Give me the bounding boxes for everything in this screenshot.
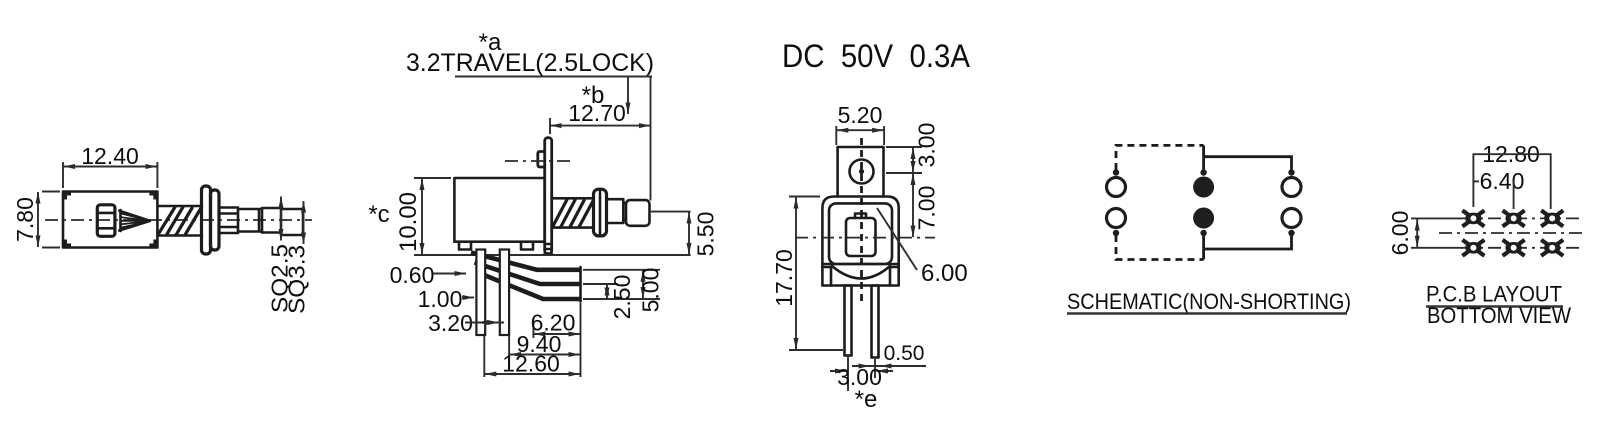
button — [626, 200, 650, 226]
pole circle top center — [1193, 177, 1214, 198]
terminal end closure — [579, 267, 582, 302]
body outline — [822, 197, 898, 286]
mid centerline — [1439, 232, 1585, 234]
foot notch left — [822, 267, 831, 286]
travel dim line — [455, 76, 652, 78]
svg-text:6.00: 6.00 — [1387, 211, 1413, 256]
terminal circle top right — [1282, 178, 1301, 197]
dim 6.00 — [1387, 211, 1462, 256]
svg-text:12.70: 12.70 — [568, 100, 626, 126]
pcb title underline — [1426, 305, 1563, 307]
cone hatch — [119, 213, 150, 228]
spring bottom edge — [552, 226, 593, 229]
body foot right — [521, 242, 533, 250]
dim SQ2.5 — [267, 197, 293, 314]
svg-text:1.00: 1.00 — [418, 286, 463, 312]
inner frame — [829, 203, 892, 264]
dim 3.00 top — [886, 123, 940, 173]
shared bottom extension line — [414, 254, 691, 256]
tip cap — [281, 209, 303, 235]
dim 3.20 — [428, 310, 504, 336]
inner window — [97, 205, 115, 237]
pad r2c2 — [1503, 240, 1525, 256]
body corner mark BL — [63, 240, 71, 248]
terminal strip 1 — [471, 253, 581, 270]
plate tab bump — [538, 152, 545, 168]
dim 0.60 — [390, 262, 466, 288]
svg-text:BOTTOM VIEW: BOTTOM VIEW — [1427, 303, 1572, 328]
dim 7.00 — [913, 174, 940, 238]
svg-text:5.50: 5.50 — [693, 212, 719, 257]
shaft section 2 — [262, 208, 281, 233]
button neck — [623, 203, 626, 220]
pad r1c2 — [1503, 210, 1525, 226]
dim 5.00 — [638, 268, 664, 313]
flange 2 — [211, 190, 220, 250]
hole center dot — [859, 169, 864, 174]
body outline — [454, 178, 544, 242]
pad r2c3 — [1541, 240, 1563, 256]
spring top edge — [158, 205, 202, 208]
body corner mark TL — [63, 192, 71, 200]
junction dots top — [1113, 169, 1295, 236]
dim 3.00 bottom — [830, 354, 893, 391]
pin left — [845, 286, 852, 356]
spring bottom edge — [158, 234, 202, 237]
dim 5.20 — [836, 102, 884, 145]
svg-text:*c: *c — [368, 201, 389, 228]
pole circle bottom center — [1193, 208, 1214, 229]
horizontal centerline — [795, 237, 935, 239]
pad r1c3 — [1541, 210, 1563, 226]
svg-text:SQ3.3: SQ3.3 — [284, 245, 310, 314]
flange 1 — [202, 186, 211, 254]
dim 7.80 — [12, 192, 60, 248]
wire bottom right — [1204, 236, 1292, 250]
svg-text:3.00: 3.00 — [914, 123, 940, 168]
svg-text:7.80: 7.80 — [12, 197, 38, 242]
dim 9.40 — [509, 331, 580, 358]
svg-text:DC 50V 0.3A: DC 50V 0.3A — [782, 38, 971, 74]
body corner mark BR — [149, 240, 157, 248]
svg-text:12.60: 12.60 — [502, 351, 560, 377]
dome arc — [832, 266, 890, 279]
wire top center vertical — [1202, 145, 1205, 170]
dim 12.40 — [63, 143, 157, 188]
body foot left — [459, 242, 471, 250]
tab hole — [850, 160, 874, 184]
flange divider — [599, 190, 602, 235]
svg-text:6.40: 6.40 — [1480, 168, 1525, 194]
terminal circle bottom right — [1282, 209, 1301, 228]
mounting tab — [838, 147, 884, 197]
dim 12.70 — [550, 100, 651, 134]
svg-text:5.20: 5.20 — [838, 102, 883, 128]
svg-text:10.00: 10.00 — [395, 192, 422, 252]
dim 17.70 — [771, 197, 843, 351]
dim 5.50 — [651, 212, 719, 257]
svg-text:*e: *e — [855, 386, 878, 413]
dim 10.00 — [395, 178, 451, 255]
svg-text:3.2TRAVEL(2.5LOCK): 3.2TRAVEL(2.5LOCK) — [406, 49, 654, 77]
centerline — [45, 219, 312, 221]
cone bar — [119, 210, 122, 231]
spring top edge — [552, 197, 593, 200]
svg-text:6.00: 6.00 — [921, 260, 968, 287]
spring coil — [553, 200, 593, 228]
row centerline 2 — [1462, 247, 1583, 249]
svg-text:2.50: 2.50 — [609, 275, 635, 320]
plunger — [846, 218, 876, 256]
terminal strip 3 — [478, 273, 581, 300]
svg-text:7.00: 7.00 — [914, 186, 940, 231]
dim 12.80 — [1473, 141, 1550, 209]
terminal circle top left — [1107, 178, 1126, 197]
window divider lower — [98, 227, 115, 230]
svg-text:0.60: 0.60 — [390, 262, 435, 288]
switch body outline — [63, 192, 157, 248]
foot notch right — [890, 267, 899, 286]
travel ref pressed — [627, 77, 629, 115]
mounting plate — [545, 138, 552, 254]
dim 6.40 — [1473, 168, 1524, 209]
vertical centerline — [860, 138, 863, 303]
svg-text:12.40: 12.40 — [81, 143, 139, 169]
label 6.00 leader — [877, 208, 917, 270]
dim 2.50 — [607, 275, 635, 320]
body corner mark TR — [149, 192, 157, 200]
ext lines 2.50 5.00 — [583, 270, 660, 299]
dim 6.20 — [531, 310, 580, 339]
cone outline — [119, 211, 150, 231]
plunger notch — [855, 214, 866, 219]
pad r2c1 — [1462, 240, 1484, 256]
schematic title underline — [1067, 312, 1347, 315]
dim 12.60 — [484, 303, 580, 377]
wire bottom center vertical — [1202, 236, 1205, 260]
svg-text:SCHEMATIC(NON-SHORTING): SCHEMATIC(NON-SHORTING) — [1067, 289, 1351, 314]
terminal circle bottom left — [1107, 209, 1126, 228]
pin right — [872, 286, 879, 358]
shaft step — [607, 199, 624, 223]
spring coil — [159, 207, 201, 235]
wire top right — [1204, 157, 1292, 170]
dashed path top — [1116, 145, 1204, 170]
plate centerline — [505, 160, 575, 162]
plate lower hatch — [545, 244, 552, 254]
pad r1c1 — [1462, 210, 1484, 226]
dim 0.50 — [852, 342, 926, 366]
bottom band line — [822, 263, 898, 266]
shaft section 1 — [219, 208, 238, 234]
svg-text:17.70: 17.70 — [771, 249, 797, 307]
dashed path bottom — [1116, 235, 1204, 260]
window divider upper — [98, 212, 115, 215]
shaft flange — [594, 189, 607, 236]
svg-text:5.00: 5.00 — [638, 268, 664, 313]
travel ref free — [650, 77, 652, 201]
terminal leg 2 — [500, 250, 509, 336]
terminal strip 2 — [475, 263, 581, 285]
shaft step — [238, 209, 262, 232]
terminal leg 1 — [476, 250, 485, 336]
dim 1.00 — [418, 286, 474, 312]
row centerline 1 — [1462, 217, 1583, 219]
dim SQ3.3 — [284, 201, 310, 314]
svg-text:0.50: 0.50 — [884, 342, 925, 365]
